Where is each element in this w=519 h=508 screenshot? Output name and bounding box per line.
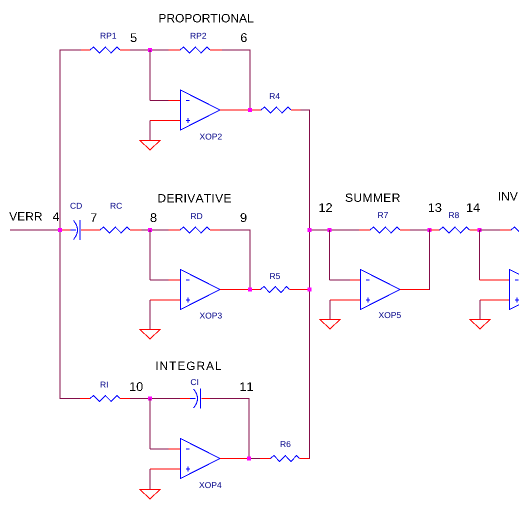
- wire node 14 to inverting input vertical: [479, 230, 481, 280]
- node XOP4 output junction: [247, 457, 251, 461]
- capacitor CI: [180, 398, 190, 400]
- resistor R6: [260, 458, 271, 460]
- wire CI to node 11 corner: [210, 398, 250, 400]
- label RP2: [191, 33, 196, 39]
- wire node 8 to inverting input vertical: [149, 230, 151, 280]
- wire XOP4 noninverting input: [150, 468, 181, 470]
- wire node 13 feedback vertical: [429, 230, 431, 291]
- capacitor CD: [62, 229, 71, 231]
- wire node 5 to inverting input vertical: [149, 50, 151, 101]
- label node 9: [241, 213, 247, 222]
- wire RP2 to node 6 corner: [222, 49, 251, 51]
- label CI: [191, 379, 196, 385]
- label node 14: [467, 203, 472, 212]
- wire R4 to summing bus: [301, 109, 311, 111]
- label CD: [70, 203, 75, 209]
- node XOP3 output junction: [248, 288, 252, 292]
- wire to XOP5 inverting input: [330, 279, 351, 281]
- wire node 11 junction to R6: [251, 458, 260, 460]
- wire RD to node 9 corner: [220, 229, 251, 231]
- label RC: [111, 203, 116, 209]
- ground at XOP5: [320, 320, 340, 330]
- op-amp XOP3: [181, 270, 221, 310]
- label R5: [270, 273, 275, 279]
- wire XOP4 output: [220, 458, 249, 460]
- wire XOP3 ground stem: [149, 300, 151, 330]
- label XOP5: [379, 312, 384, 318]
- label node 13: [429, 203, 434, 212]
- node 12 bus junction: [308, 228, 312, 232]
- resistor RI: [80, 398, 90, 400]
- label node VERR: [9, 212, 17, 220]
- resistor RD: [169, 229, 181, 231]
- label section DERIVATIVE: [158, 194, 165, 202]
- label section INTEGRAL: [156, 362, 157, 370]
- node 13: [428, 228, 432, 232]
- wire XOP2 output: [220, 109, 261, 111]
- op-amp XOP4: [181, 439, 221, 479]
- wire node 12 to inverting input vertical: [329, 230, 331, 280]
- label node 4: [53, 212, 59, 221]
- resistor R8: [431, 229, 440, 231]
- op-amp U6 inverter partial: [510, 270, 519, 310]
- node 14: [478, 228, 482, 232]
- label node 12: [319, 203, 324, 212]
- label R6: [281, 441, 286, 447]
- wire node 11 vertical: [248, 398, 250, 459]
- wire XOP4 ground stem: [149, 469, 151, 490]
- label XOP4: [199, 482, 204, 488]
- label node 5: [131, 33, 137, 42]
- resistor RC: [100, 227, 130, 233]
- label RP1: [101, 33, 106, 39]
- resistor R7: [359, 229, 370, 231]
- node 4: [58, 228, 62, 232]
- label node 8: [151, 213, 157, 222]
- wire integral row left: [60, 398, 80, 400]
- label node 11: [240, 382, 245, 391]
- wire RP1 to node 5: [130, 49, 148, 51]
- wire to inverter inverting input: [480, 279, 510, 281]
- wire summing bus vertical: [309, 110, 311, 460]
- label R8: [449, 212, 454, 218]
- wire RC to node 8: [142, 229, 149, 231]
- wire node 8 to RD: [152, 229, 169, 231]
- node 5: [148, 48, 152, 52]
- node 8: [148, 228, 152, 232]
- wire XOP5 ground stem: [329, 300, 331, 320]
- node R5 to bus junction: [308, 288, 312, 292]
- label section PROPORTIONAL: [159, 14, 165, 22]
- label XOP2: [200, 134, 205, 140]
- resistor RP1: [81, 49, 90, 51]
- label section INV: [499, 192, 500, 200]
- wire inverter noninverting input: [480, 299, 510, 301]
- node 10: [148, 397, 152, 401]
- wire XOP5 noninverting input: [330, 299, 361, 301]
- label node 10: [130, 382, 135, 391]
- ground at XOP2: [140, 141, 160, 151]
- wire node 6 vertical: [249, 50, 251, 111]
- wire node 5 to RP2: [152, 49, 169, 51]
- wire R7 to node 13: [410, 229, 429, 231]
- label node 7: [91, 213, 97, 222]
- resistor R9 partial: [500, 229, 511, 231]
- wire to XOP4 inverting input: [150, 448, 169, 450]
- wire to XOP2 inverting input: [150, 100, 169, 102]
- wire node 10 to inverting input vertical: [149, 399, 151, 450]
- resistor RP2: [169, 49, 181, 51]
- wire XOP5 output: [400, 289, 430, 291]
- label node 6: [241, 33, 247, 42]
- wire left vertical bus: [59, 50, 61, 400]
- label R4: [270, 93, 275, 99]
- wire node 9 vertical: [249, 230, 251, 290]
- ground at XOP3: [140, 330, 160, 340]
- ground at inverter: [470, 320, 490, 330]
- label XOP3: [200, 313, 205, 319]
- wire inverter ground stem: [479, 300, 481, 320]
- wire VERR input lead: [10, 229, 60, 231]
- ground at XOP4: [140, 490, 160, 500]
- wire node 10 to CI: [152, 398, 180, 400]
- wire node 14 to R9: [480, 229, 500, 231]
- node 12: [328, 228, 332, 232]
- label R7: [378, 212, 383, 218]
- op-amp XOP5: [361, 270, 401, 310]
- op-amp XOP2: [181, 90, 221, 130]
- wire summer bus row: [310, 229, 360, 231]
- resistor R5: [261, 287, 290, 293]
- wire XOP3 output: [220, 289, 261, 291]
- resistor R4: [261, 107, 291, 113]
- wire XOP2 noninverting input: [150, 120, 181, 122]
- label RI: [101, 382, 106, 388]
- wire RI to node 10: [130, 398, 148, 400]
- wire to XOP3 inverting input: [150, 279, 169, 281]
- node XOP2 output junction: [248, 108, 252, 112]
- label section SUMMER: [346, 193, 353, 201]
- wire XOP2 ground stem: [149, 121, 151, 141]
- label RD: [191, 213, 196, 219]
- wire prop row left: [60, 49, 82, 51]
- wire XOP3 noninverting input: [150, 299, 181, 301]
